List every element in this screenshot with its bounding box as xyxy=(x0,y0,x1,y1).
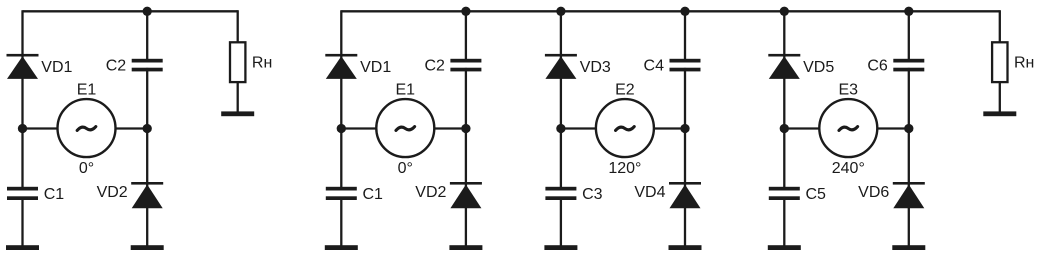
wire E-row E2 xyxy=(561,127,685,129)
node C2 junction xyxy=(143,124,152,133)
svg-text:C1: C1 xyxy=(44,186,65,203)
svg-text:VD4: VD4 xyxy=(634,184,665,201)
wire xyxy=(340,197,342,246)
svg-text:C4: C4 xyxy=(644,58,665,75)
svg-text:Rн: Rн xyxy=(252,54,272,71)
node top junction xyxy=(780,7,789,16)
top wire circuit 1 xyxy=(23,10,238,12)
wire E-row E1 xyxy=(23,127,148,129)
wire xyxy=(560,197,562,246)
ground xyxy=(544,245,577,250)
svg-text:VD6: VD6 xyxy=(858,184,889,201)
node C4 junction xyxy=(680,124,689,133)
diode VD3 xyxy=(545,54,577,79)
capacitor C6 xyxy=(893,59,924,72)
diode VD1 xyxy=(7,54,39,79)
svg-text:VD3: VD3 xyxy=(580,59,611,76)
capacitor C2 xyxy=(450,59,481,72)
wire xyxy=(783,197,785,246)
wire E-row E1 xyxy=(341,127,466,129)
svg-text:0°: 0° xyxy=(79,160,94,177)
svg-text:120°: 120° xyxy=(608,160,641,177)
wire xyxy=(237,82,239,112)
ground xyxy=(131,245,164,250)
wire xyxy=(237,10,239,43)
svg-text:0°: 0° xyxy=(398,160,413,177)
wire xyxy=(999,10,1001,43)
node VD3 junction xyxy=(556,124,565,133)
wire xyxy=(146,10,148,62)
wire xyxy=(783,10,785,190)
svg-text:C6: C6 xyxy=(867,58,888,75)
node VD1 junction xyxy=(18,124,27,133)
svg-text:VD5: VD5 xyxy=(803,59,834,76)
svg-text:C2: C2 xyxy=(106,58,127,75)
resistor Rн xyxy=(230,42,245,82)
svg-text:VD2: VD2 xyxy=(97,184,128,201)
svg-text:Rн: Rн xyxy=(1014,54,1034,71)
wire xyxy=(560,10,562,190)
svg-text:C5: C5 xyxy=(806,186,827,203)
ground xyxy=(669,245,702,250)
svg-text:C1: C1 xyxy=(363,186,384,203)
diode VD6 xyxy=(893,182,925,208)
svg-text:E2: E2 xyxy=(615,82,635,99)
node top junction xyxy=(904,7,913,16)
node VD1 junction xyxy=(337,124,346,133)
capacitor C3 xyxy=(545,187,576,200)
wire E-row E3 xyxy=(784,127,909,129)
wire xyxy=(999,82,1001,112)
ground xyxy=(325,245,358,250)
wire xyxy=(21,10,23,190)
wire xyxy=(465,10,467,62)
wire xyxy=(908,10,910,62)
wire xyxy=(684,68,686,246)
node top junction xyxy=(680,7,689,16)
capacitor C2 xyxy=(132,59,163,72)
node top junction xyxy=(461,7,470,16)
top wire circuit 2 xyxy=(341,10,999,12)
wire xyxy=(465,68,467,246)
ground xyxy=(768,245,801,250)
node top junction c1 xyxy=(143,7,152,16)
ground xyxy=(449,245,482,250)
diode VD2 xyxy=(131,182,163,208)
diode VD5 xyxy=(768,54,800,79)
svg-text:VD2: VD2 xyxy=(415,184,446,201)
resistor Rн xyxy=(992,42,1007,82)
AC source E1 xyxy=(376,99,434,157)
svg-text:VD1: VD1 xyxy=(360,59,391,76)
wire xyxy=(21,197,23,246)
ground xyxy=(892,245,925,250)
svg-text:E3: E3 xyxy=(839,82,859,99)
wire xyxy=(146,68,148,246)
svg-text:E1: E1 xyxy=(396,82,416,99)
wire xyxy=(340,10,342,190)
node VD5 junction xyxy=(780,124,789,133)
svg-text:C2: C2 xyxy=(424,58,445,75)
capacitor C1 xyxy=(326,187,357,200)
ground xyxy=(6,245,39,250)
capacitor C4 xyxy=(670,59,701,72)
ground xyxy=(983,111,1016,116)
wire xyxy=(684,10,686,62)
node C6 junction xyxy=(904,124,913,133)
diode VD2 xyxy=(450,182,482,208)
node top junction xyxy=(556,7,565,16)
AC source E1 xyxy=(58,99,116,157)
AC source E2 xyxy=(596,99,654,157)
wire xyxy=(908,68,910,246)
diode VD4 xyxy=(669,182,701,208)
svg-text:C3: C3 xyxy=(582,186,603,203)
capacitor C1 xyxy=(7,187,38,200)
capacitor C5 xyxy=(769,187,800,200)
diode VD1 xyxy=(325,54,357,79)
svg-text:VD1: VD1 xyxy=(41,59,72,76)
AC source E3 xyxy=(819,99,877,157)
node C2 junction xyxy=(461,124,470,133)
svg-text:E1: E1 xyxy=(77,82,97,99)
svg-text:240°: 240° xyxy=(832,160,865,177)
ground xyxy=(221,111,254,116)
